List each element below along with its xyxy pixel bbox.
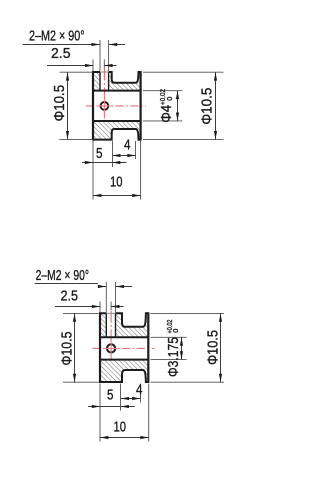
extension line M2 right (bottom drawing)	[115, 282, 117, 313]
svg-text:4: 4	[124, 138, 131, 154]
svg-text:2.5: 2.5	[61, 289, 79, 305]
extension line flange inner lower (bottom drawing)	[140, 384, 142, 403]
crosshair in circle	[98, 105, 112, 107]
dimension phi10.5 left	[59, 71, 92, 73]
part right edge	[140, 71, 142, 141]
extension line hub right lower	[112, 141, 114, 167]
bore top line (bottom drawing)	[99, 336, 149, 338]
svg-text:Φ4: Φ4	[159, 105, 175, 123]
centerline axis horizontal (red, bottom drawing)	[93, 347, 155, 349]
extension line part right lower (bottom drawing)	[148, 384, 150, 442]
extension line part right lower	[140, 141, 142, 200]
dimension 5 (bottom drawing)	[88, 406, 100, 408]
centerline M2 hole vertical (red)	[103, 69, 105, 121]
crosshair in circle (bottom drawing)	[104, 347, 119, 349]
hatch right flange bottom	[136, 129, 140, 140]
hatch belt band bottom (bottom drawing)	[122, 360, 148, 375]
hatch hub block bottom (bottom drawing)	[100, 360, 122, 382]
dimension 4	[112, 155, 135, 157]
svg-text:Φ10.5: Φ10.5	[206, 330, 222, 365]
svg-text:0: 0	[165, 97, 174, 101]
extension line part left lower	[92, 141, 94, 200]
M2 hole left edge (bottom drawing)	[105, 313, 107, 337]
bore top line	[92, 90, 142, 92]
svg-text:Φ10.5: Φ10.5	[52, 85, 68, 122]
centerline M2 hole vertical (red, bottom drawing)	[110, 311, 112, 360]
centerline axis horizontal (red)	[86, 105, 146, 107]
hatch right flange top (bottom drawing)	[143, 313, 148, 327]
part outline bottom half (bottom drawing)	[100, 370, 148, 382]
extension line flange inner lower	[135, 141, 137, 159]
hole opening thin line (bottom drawing)	[106, 312, 115, 314]
hole opening thin line	[100, 71, 109, 73]
svg-text:2–M2 × 90°: 2–M2 × 90°	[36, 268, 89, 284]
hatch hub-left block bottom	[93, 121, 112, 140]
svg-text:10: 10	[110, 175, 123, 191]
part left edge (bottom drawing)	[99, 312, 101, 383]
hatch belt band bottom	[112, 121, 141, 133]
extension line M2 right	[108, 40, 110, 71]
extension line M2 left (bottom drawing)	[105, 282, 107, 313]
bore bottom line	[92, 120, 142, 122]
svg-text:10: 10	[114, 420, 127, 436]
hatch right flange bottom (bottom drawing)	[143, 370, 148, 382]
svg-text:2–M2 × 90°: 2–M2 × 90°	[29, 29, 85, 45]
dimension phi3.175 right (bottom drawing)	[151, 336, 187, 338]
hatch right flange top	[136, 72, 140, 83]
dimension 5	[82, 162, 93, 164]
hatch hub-left block top (bottom drawing)	[100, 313, 106, 337]
set screw circle	[101, 102, 109, 110]
dimension 10 (bottom drawing)	[100, 437, 149, 439]
part left edge	[92, 71, 94, 141]
dimension 4 (bottom drawing)	[121, 398, 141, 400]
dimension 10	[93, 195, 141, 197]
leader 2-M2x90 with underline (bottom drawing)	[35, 283, 98, 285]
M2 hole left edge	[99, 72, 101, 91]
hatch hub-left block top	[93, 72, 100, 91]
extension line hub right lower (bottom drawing)	[120, 384, 122, 411]
part outline bottom half	[93, 129, 141, 140]
part right edge (bottom drawing)	[147, 312, 149, 383]
dimension phi10.5 right	[143, 71, 223, 73]
svg-text:Φ10.5: Φ10.5	[59, 332, 75, 366]
leader 2-M2x90 with underline	[23, 44, 92, 46]
dimension phi10.5 left (bottom drawing)	[63, 312, 99, 314]
dimension phi10.5 right (bottom drawing)	[151, 312, 225, 314]
set screw circle (bottom drawing)	[107, 344, 115, 352]
hatch hub-right + belt band top (bottom drawing)	[116, 313, 149, 337]
svg-text:Φ3.175: Φ3.175	[166, 337, 182, 377]
svg-text:2.5: 2.5	[51, 46, 71, 62]
M2 hole right edge	[108, 72, 110, 91]
dimension phi4 right	[143, 90, 182, 92]
svg-text:5: 5	[107, 388, 114, 404]
part outline top half (bottom drawing)	[100, 313, 148, 327]
part outline top half	[93, 72, 141, 83]
hatch hub-right + belt band top	[109, 72, 141, 91]
bore bottom line (bottom drawing)	[99, 359, 149, 361]
svg-text:4: 4	[136, 382, 143, 398]
extension line M2 left	[99, 40, 101, 71]
svg-text:5: 5	[96, 146, 103, 162]
svg-text:Φ10.5: Φ10.5	[200, 88, 216, 125]
dimension 2.5 (bottom drawing)	[99, 302, 101, 313]
M2 hole right edge (bottom drawing)	[115, 313, 117, 337]
svg-text:0: 0	[171, 329, 180, 333]
extension line part left lower (bottom drawing)	[99, 384, 101, 442]
dimension 2.5	[92, 60, 94, 72]
